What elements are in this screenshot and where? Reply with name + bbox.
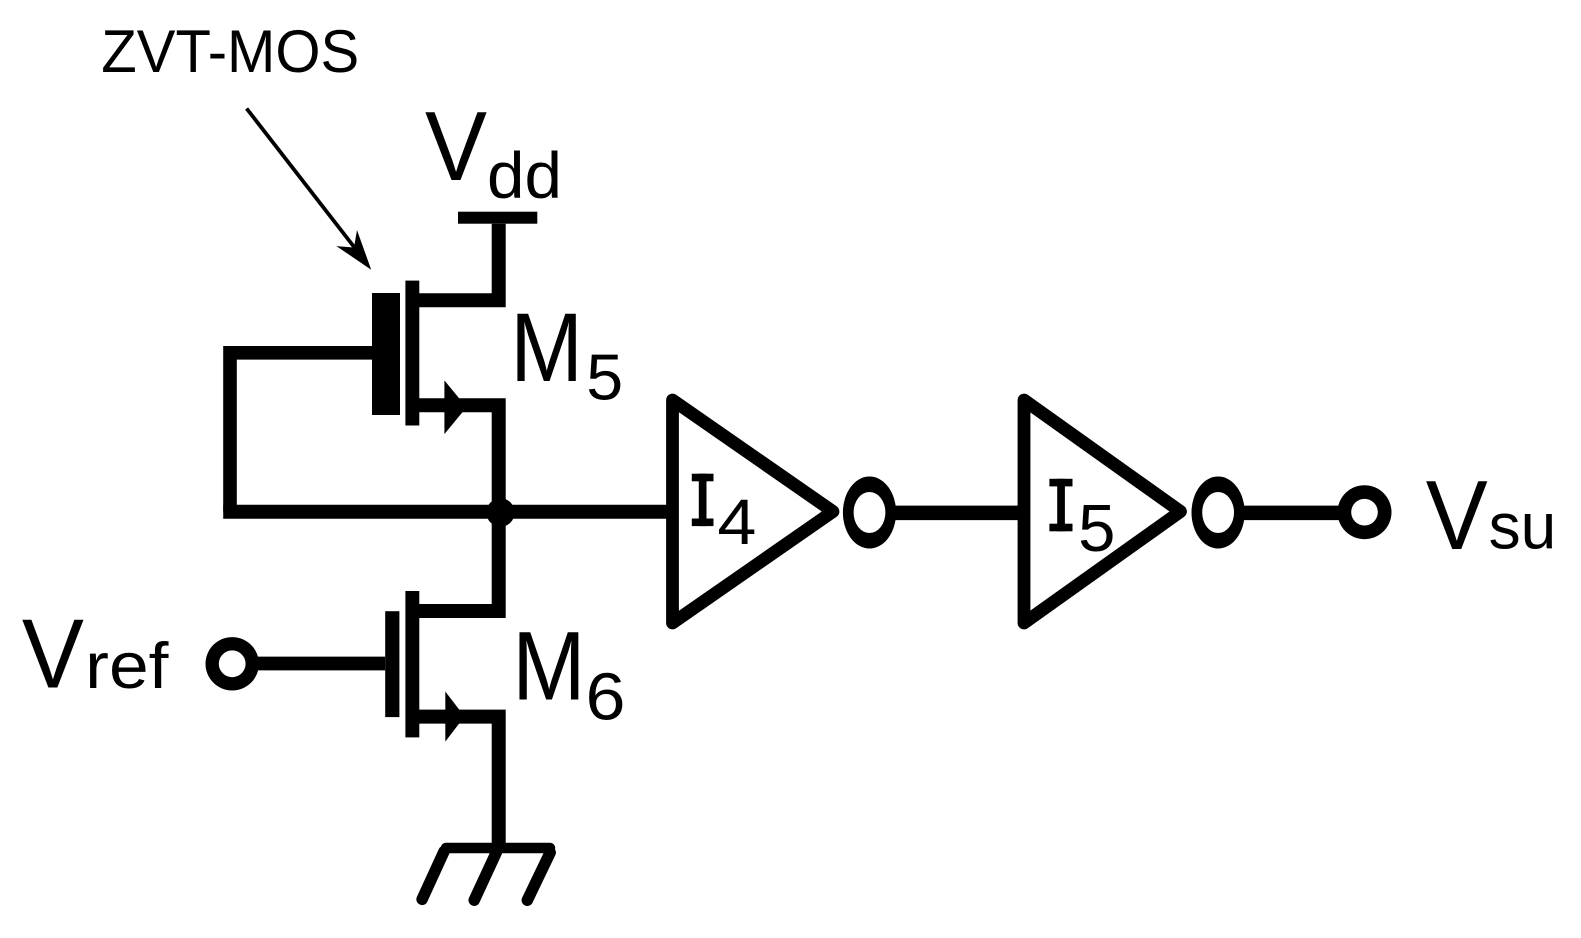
label M5 [510,293,623,414]
inverter I5 bubble [1192,477,1245,549]
label Vref [22,598,170,708]
svg-text:6: 6 [586,660,626,734]
Vdd supply bar [458,212,537,224]
wire Vdd bar to M5 drain [412,224,499,301]
label Vdd [425,91,562,212]
label M6 [512,612,625,735]
wire M5 gate feedback loop [230,353,372,512]
inverter I4 bubble [843,477,896,549]
svg-text:V: V [22,598,84,708]
label I5 (serif I drawn manually) [1049,479,1115,566]
wire Vref terminal to M6 gate [257,657,385,671]
transistor M5 thick ZVT gate bar [372,293,400,415]
svg-text:M: M [512,612,585,721]
wire node horizontal to I4 input [223,505,667,519]
svg-text:su: su [1489,490,1557,563]
wire I4 output to I5 input [895,506,1019,521]
transistor M5 source stub [412,405,499,512]
wire node to M6 drain [412,512,499,611]
transistor M6 source arrow [445,692,464,742]
svg-text:ref: ref [85,629,169,702]
svg-text:ZVT-MOS: ZVT-MOS [101,17,359,85]
leader arrow from label to M5 gate [247,109,372,270]
transistor M5 channel [405,281,419,426]
node A junction dot [486,498,514,526]
terminal Vref (open circle) [206,637,259,690]
svg-text:5: 5 [1078,492,1115,566]
label I4 (serif I drawn manually) [692,474,757,558]
ground symbol [422,848,550,900]
transistor M6 gate bar [385,611,399,717]
svg-text:V: V [425,91,487,201]
inverter I5 triangle [1024,400,1181,623]
svg-text:5: 5 [586,342,623,414]
transistor M6 channel [405,591,419,737]
wire I5 output to Vsu terminal [1243,506,1339,521]
inverter I4 triangle [673,400,834,623]
transistor M6 source stub [412,717,499,848]
terminal Vsu (open circle) [1338,485,1392,539]
label Vsu [1426,460,1556,570]
svg-text:M: M [510,293,583,402]
transistor M5 source arrow [444,380,466,434]
svg-text:V: V [1426,460,1488,570]
svg-text:dd: dd [487,139,562,212]
svg-text:4: 4 [717,486,756,558]
